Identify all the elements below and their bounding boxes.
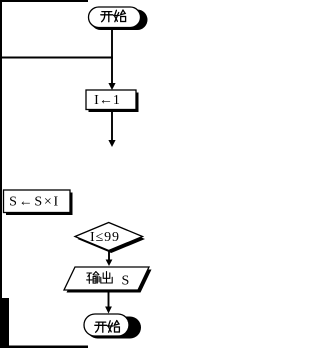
label 输出 S hand-drawn glyphs + serif S bbox=[87, 272, 113, 284]
terminator START (top stadium) with shadow bbox=[89, 7, 148, 30]
left border line bbox=[0, 0, 2, 348]
label 开始 (bottom) hand-drawn glyphs bbox=[95, 321, 120, 333]
glyph 开 bbox=[95, 322, 107, 332]
terminator END (bottom stadium, labelled 开始) with shadow bbox=[84, 314, 141, 339]
svg-text:I≤99: I≤99 bbox=[90, 230, 120, 245]
bottom border line bbox=[0, 346, 88, 348]
process box I<-1 with shadow bbox=[86, 90, 139, 112]
glyph 始 bbox=[108, 321, 120, 333]
svg-text:S: S bbox=[122, 273, 130, 288]
io parallelogram output S with shadow bbox=[64, 267, 152, 293]
glyph 开 bbox=[101, 12, 113, 22]
bottom-left black block bbox=[0, 298, 9, 348]
top border line bbox=[0, 0, 88, 2]
wire: parallelogram to end terminator with arrowhead bbox=[105, 290, 112, 314]
decision diamond I<=99 with shadow bbox=[75, 223, 145, 254]
glyph 输 bbox=[87, 272, 100, 284]
wire: below I box ending with arrowhead bbox=[108, 110, 115, 147]
svg-text:S←S×I: S←S×I bbox=[9, 195, 60, 210]
wire: horizontal feed line at y=57 from left edge bbox=[1, 57, 113, 59]
glyph 出 bbox=[101, 272, 112, 283]
label 开始 (top) hand-drawn glyphs bbox=[101, 10, 126, 22]
wire: start terminator to I assign box, with arrowhead bbox=[108, 28, 115, 91]
wire: diamond to parallelogram with arrowhead bbox=[106, 251, 113, 267]
svg-text:I←1: I←1 bbox=[94, 93, 120, 108]
process box S<-SxI with shadow bbox=[4, 190, 73, 215]
glyph 始 bbox=[114, 10, 126, 22]
